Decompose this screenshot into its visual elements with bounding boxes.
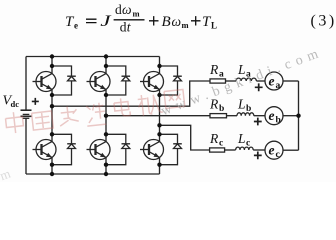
wire b out (283, 115, 299, 117)
char ji (137, 93, 163, 117)
diode D6 (160, 134, 182, 164)
plus c (254, 152, 262, 160)
svg-text:b: b (276, 116, 281, 126)
svg-text:a: a (276, 81, 281, 91)
junction leg1 top rail (50, 54, 54, 58)
svg-text:b: b (246, 104, 251, 114)
wire top rail (26, 56, 160, 58)
diode D2 (106, 66, 130, 95)
svg-text:e: e (74, 21, 78, 31)
resistor Rc (210, 148, 225, 152)
inductor La (236, 78, 256, 81)
wire leg1 collector (51, 57, 53, 74)
junction leg1 D4 top stub (50, 132, 54, 136)
junction leg1 D4 bottom stub (50, 163, 54, 167)
svg-text:d: d (115, 2, 122, 17)
junction leg1 D1 bottom stub (50, 93, 54, 97)
source ea (265, 72, 283, 90)
svg-text:c: c (276, 150, 280, 160)
svg-text:(3): (3) (311, 13, 336, 30)
equation Te = J dwm/dt + Bwm + TL (65, 2, 336, 34)
inductor Lb (237, 113, 254, 116)
svg-text:J: J (100, 12, 112, 30)
wire leg1 emitter to mid (51, 89, 53, 141)
junction neutral node (296, 114, 300, 118)
junction leg1 D1 anode stub (50, 64, 54, 68)
svg-text:c: c (219, 139, 223, 149)
junction leg3 D3 anode stub (157, 64, 161, 68)
char bu (58, 105, 79, 126)
junction leg3 D6 top stub (157, 132, 161, 136)
svg-text:m: m (133, 9, 140, 19)
char guo (32, 111, 54, 130)
transistor Q2 (87, 72, 111, 92)
wire leg3 collector (159, 57, 161, 74)
char jin (85, 102, 106, 126)
svg-text:L: L (237, 97, 246, 112)
junction leg2 D2 anode stub (104, 64, 108, 68)
junction leg1 bottom rail (50, 172, 54, 176)
svg-text:R: R (209, 131, 219, 146)
wire neutral vertical (298, 81, 300, 150)
svg-text:e: e (269, 143, 275, 158)
wire bottom rail (26, 173, 160, 175)
battery Vdc (21, 110, 32, 118)
wire left battery line lower (25, 118, 27, 174)
plus a (255, 83, 263, 91)
wire c out (283, 149, 299, 151)
junction leg2 top rail (104, 54, 108, 58)
svg-text:m: m (182, 20, 189, 30)
char zhong (5, 111, 24, 134)
char dian (114, 97, 131, 117)
transistor Q1 (33, 72, 57, 92)
svg-text:dc: dc (11, 99, 20, 109)
char wang (164, 89, 185, 108)
junction leg3 D3 bottom stub (157, 93, 161, 97)
svg-text:B: B (162, 14, 171, 30)
diode D1 (52, 66, 76, 95)
svg-text:a: a (219, 70, 224, 80)
junction leg2 D5 top stub (104, 132, 108, 136)
svg-text:c: c (246, 139, 250, 149)
svg-text:ω: ω (172, 14, 182, 29)
wire a mid (226, 80, 237, 82)
battery plus (32, 98, 39, 105)
wire leg2 emitter to mid (105, 89, 107, 141)
svg-text:d: d (120, 19, 127, 34)
node phase c tap (157, 123, 161, 127)
resistor Rb (210, 114, 227, 118)
svg-text:b: b (219, 104, 224, 114)
wire c mid (225, 149, 236, 151)
source eb (265, 107, 283, 125)
wire phase c tap (160, 125, 210, 150)
wire c to source (253, 149, 265, 151)
wire leg3 emitter to mid (159, 89, 161, 141)
watermark gray url (159, 45, 325, 119)
svg-text:L: L (211, 21, 217, 31)
wire b to source (254, 115, 265, 117)
wire a to source (256, 80, 265, 82)
svg-text:R: R (209, 62, 219, 77)
svg-text:om: om (0, 164, 16, 182)
svg-text:t: t (127, 19, 132, 34)
junction leg2 D5 bottom stub (104, 163, 108, 167)
wire leg2 bottom emitter (105, 157, 107, 174)
svg-text:ω: ω (122, 2, 132, 17)
plus b (254, 118, 262, 126)
inductor Lc (236, 147, 254, 150)
wire leg1 bottom emitter (51, 157, 53, 174)
wire leg3 bottom emitter (159, 157, 161, 174)
watermark red chinese (vector approximation) (4, 89, 185, 135)
watermark gray fragment bottom left (0, 164, 16, 187)
diode D3 (160, 66, 182, 95)
transistor Q3 (140, 72, 164, 92)
wire leg2 collector (105, 57, 107, 74)
transistor Q4 (33, 140, 57, 160)
junction leg3 D6 bottom stub (157, 163, 161, 167)
wire left battery line upper (25, 57, 27, 110)
node phase a tap (50, 104, 54, 108)
resistor Ra (210, 79, 226, 83)
svg-text:e: e (269, 108, 275, 123)
transistor Q5 (87, 140, 111, 160)
diode D5 (106, 134, 130, 164)
svg-text:L: L (237, 131, 246, 146)
node phase b tap (104, 114, 108, 118)
junction leg2 bottom rail (104, 172, 108, 176)
junction leg2 D2 bottom stub (104, 93, 108, 97)
wire phase a tap (52, 81, 210, 106)
wire b mid (227, 115, 238, 117)
transistor Q6 (140, 140, 164, 160)
source ec (265, 141, 283, 159)
diode D4 (52, 134, 76, 164)
wire phase b tap (106, 115, 210, 117)
wire a out (283, 80, 299, 82)
